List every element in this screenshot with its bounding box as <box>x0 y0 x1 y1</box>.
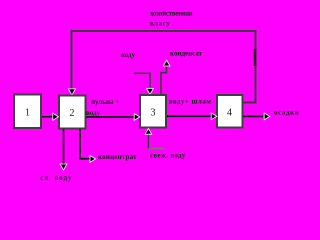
arrowhead into box 2 top <box>69 89 75 94</box>
wire: box 2 bottom-right outlet elbow <box>80 130 90 159</box>
svg-text:2: 2 <box>70 108 75 119</box>
box 2 <box>59 96 86 129</box>
svg-text:хозяйственная: хозяйственная <box>150 10 193 18</box>
svg-text:воду: воду <box>121 51 136 59</box>
wire: fresh water feed into box 3 bottom <box>148 135 163 149</box>
svg-text:концентрат: концентрат <box>98 153 137 161</box>
svg-text:1: 1 <box>25 108 30 119</box>
svg-text:влагу: влагу <box>150 20 170 28</box>
wire: box 2 bottom-left drain <box>63 130 65 164</box>
arrowhead into box 4 left <box>212 114 216 119</box>
box 3 <box>140 95 166 128</box>
svg-text:пульпа +: пульпа + <box>91 98 119 106</box>
wire: vent up out of box 3 top <box>161 67 167 95</box>
wire: box 4 output right <box>244 115 264 117</box>
svg-text:сл. воду: сл. воду <box>40 174 73 182</box>
svg-text:воду+ шлам: воду+ шлам <box>169 97 211 105</box>
svg-text:3: 3 <box>151 108 156 119</box>
arrowhead up into box 3 bottom <box>146 129 151 134</box>
svg-text:4: 4 <box>227 108 232 119</box>
svg-text:конденсат: конденсат <box>170 50 203 58</box>
box 1 <box>14 95 41 129</box>
arrowhead pointing up from box 3 vent <box>164 61 169 66</box>
wire: box 3 to box 4 <box>167 115 211 117</box>
svg-text:воду: воду <box>86 109 101 117</box>
arrowhead into box 3 top <box>147 89 153 94</box>
box 4 <box>217 95 243 128</box>
wire: box 2 to box 3 <box>87 116 134 118</box>
svg-text:свеж. воду: свеж. воду <box>150 151 186 159</box>
wire: box 1 to box 2 <box>42 116 54 118</box>
arrowhead at box 4 output <box>265 114 269 119</box>
arrowhead into box 2 left <box>53 114 58 120</box>
arrowhead down on box 2 drain <box>61 164 66 169</box>
arrowhead right on box 2 outlet <box>90 156 94 161</box>
wire: dark segment on right riser <box>254 49 256 66</box>
wire: recycle loop top (box4 right riser to box2 top) <box>72 31 256 103</box>
svg-text:осадки: осадки <box>274 109 299 117</box>
arrowhead into box 3 left <box>135 114 139 119</box>
wire: elbow from label down into box 3 top <box>134 73 150 87</box>
